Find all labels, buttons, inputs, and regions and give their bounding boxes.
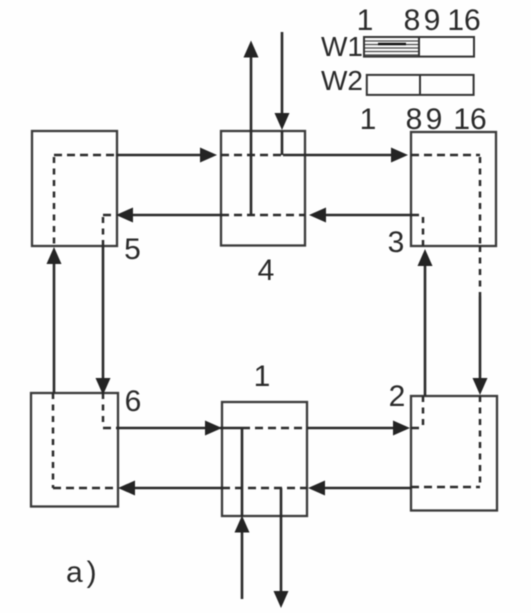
wire dashed stub node 2 upper bbox=[411, 427, 423, 430]
wire input stub inside node 4 bbox=[281, 131, 284, 155]
svg-text:W2: W2 bbox=[321, 65, 363, 96]
wire arrow 2 to 1 bbox=[317, 487, 411, 490]
arrowhead 1 to 6 bbox=[118, 481, 135, 496]
arrowhead 4 to 5 bbox=[116, 208, 133, 223]
wire dashed left vertical in node 3 bbox=[422, 217, 425, 246]
arrowhead node 4 input down bbox=[275, 113, 290, 130]
arrowhead 3 to 4 bbox=[309, 208, 326, 223]
wire dashed upper in node 4 bbox=[221, 154, 283, 157]
wire dashed top in node 5 bbox=[54, 154, 116, 157]
bit numbers below W2 bbox=[360, 103, 487, 136]
wire dashed lower in node 1 bbox=[222, 487, 307, 490]
wire arrow 6 to 1 bbox=[118, 427, 211, 430]
svg-text:8: 8 bbox=[406, 103, 423, 136]
wire arrow 2 up to 3 bbox=[424, 259, 427, 396]
wire arrow 6 up to 5 bbox=[53, 257, 56, 393]
wire dashed stub node 3 lower bbox=[411, 214, 423, 217]
node box 2 bbox=[411, 396, 497, 511]
wire arrow 3 to 4 bbox=[319, 214, 411, 217]
wire output up from node 4 bbox=[250, 50, 253, 215]
wire arrow 1 to 2 bbox=[307, 427, 400, 430]
arrowhead 5 to 6 down bbox=[96, 378, 111, 395]
svg-text:3: 3 bbox=[388, 226, 405, 259]
svg-text:16: 16 bbox=[453, 103, 486, 136]
node box 6 bbox=[31, 393, 118, 507]
node box 4 bbox=[221, 131, 305, 246]
wire input up to node 1 bbox=[241, 525, 244, 599]
bit numbers above W1 bbox=[357, 4, 481, 37]
wire arrow 4 to 3 bbox=[283, 154, 398, 157]
wire dashed stub node 5 lower bbox=[103, 214, 116, 217]
svg-text:16: 16 bbox=[447, 4, 480, 37]
wire dashed right vertical in node 3 bbox=[479, 157, 482, 246]
arrowhead 3 to 2 down bbox=[473, 378, 488, 395]
wire dashed upper in node 1 bbox=[242, 427, 307, 430]
svg-text:6: 6 bbox=[125, 385, 142, 418]
svg-text:9: 9 bbox=[426, 103, 443, 136]
wire dashed lower in node 4 bbox=[221, 214, 305, 217]
wire dashed left vertical in node 2 bbox=[422, 396, 425, 426]
arrowhead 4 to 3 bbox=[391, 148, 408, 163]
svg-text:4: 4 bbox=[258, 254, 275, 287]
wire dashed right vertical in node 2 bbox=[479, 396, 482, 487]
arrowhead 1 to 2 bbox=[393, 421, 410, 436]
svg-text:1: 1 bbox=[254, 360, 271, 393]
svg-text:5: 5 bbox=[124, 233, 141, 266]
wire arrow 4 to 5 bbox=[127, 214, 221, 217]
wire arrow 3 down to 2 solid part bbox=[479, 296, 482, 385]
wire dashed right vertical in node 5 bbox=[102, 217, 105, 246]
wire arrow 1 to 6 bbox=[128, 487, 222, 490]
wire dashed upper in node 3 bbox=[411, 154, 480, 157]
register W1 hatch bbox=[365, 41, 418, 55]
wire dashed lower in node 2 bbox=[411, 486, 480, 489]
svg-text:1: 1 bbox=[360, 103, 377, 136]
wire dashed stub node 6 upper bbox=[103, 427, 118, 430]
wire output down from node 1 bbox=[280, 488, 283, 598]
svg-text:2: 2 bbox=[389, 380, 406, 413]
wire arrow 5 down to 6 bbox=[102, 246, 105, 382]
wire input stub inside node 1 bbox=[241, 428, 244, 516]
svg-text:9: 9 bbox=[424, 4, 441, 37]
register W1 bbox=[364, 37, 474, 57]
arrowhead 2 to 3 up bbox=[418, 249, 433, 266]
svg-text:1: 1 bbox=[357, 4, 374, 37]
node box 1 bbox=[222, 402, 307, 516]
wire dashed lower in node 6 bbox=[53, 487, 114, 490]
wire dashed below node 3 bbox=[479, 246, 482, 296]
wire dashed left vertical in node 5 bbox=[53, 157, 56, 246]
arrowhead node 1 output down bbox=[274, 591, 289, 608]
arrowhead 6 to 5 up bbox=[47, 247, 62, 264]
arrowhead node 4 output up bbox=[244, 41, 259, 58]
node box 5 bbox=[32, 131, 117, 246]
wire solid stub left in node 1 bbox=[220, 427, 242, 430]
wire dashed left vertical in node 6 bbox=[52, 393, 55, 488]
arrowhead node 1 input up bbox=[235, 516, 250, 533]
arrowhead 6 to 1 bbox=[205, 421, 222, 436]
arrowhead 5 to 4 bbox=[200, 148, 217, 163]
wire input down to node 4 bbox=[281, 32, 284, 120]
svg-text:a): a) bbox=[66, 556, 101, 589]
arrowhead 2 to 1 bbox=[308, 481, 325, 496]
wire arrow 5 to 4 bbox=[116, 154, 207, 157]
svg-text:8: 8 bbox=[404, 4, 421, 37]
register W2 bbox=[367, 75, 474, 95]
wire dashed right vertical in node 6 bbox=[102, 393, 105, 426]
node box 3 bbox=[411, 132, 496, 246]
